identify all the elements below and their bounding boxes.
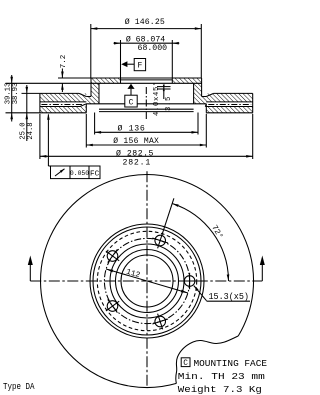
svg-text:15.3(x5): 15.3(x5) (209, 291, 250, 302)
center bore circle r26 (121, 255, 173, 307)
svg-text:Ø 136: Ø 136 (117, 123, 145, 133)
dim dia 156 extension lines (85, 114, 87, 148)
hatch: left friction ring bottom plate (40, 107, 86, 113)
datum C box in note (181, 358, 190, 367)
svg-text:0.050: 0.050 (70, 170, 89, 177)
dim 25.0/24.8 line and arrows (26, 93, 28, 141)
svg-text:MOUNTING FACE: MOUNTING FACE (194, 358, 268, 369)
mounting face extension line left (6, 82, 92, 84)
dim dia 156 MAX line and arrows (86, 144, 206, 146)
svg-text:Weight 7.3 Kg: Weight 7.3 Kg (178, 384, 262, 395)
dim dia 136 extension lines (94, 113, 96, 135)
dim dia 146.25 extension lines (90, 24, 92, 78)
hatch: right friction ring top plate (206, 93, 252, 102)
svg-text:7.2: 7.2 (60, 54, 68, 68)
hidden circle r49.7 (dashed) (97, 231, 196, 330)
section plane arrow left (29, 259, 31, 281)
dim dia 68 line and arrows (114, 42, 180, 44)
svg-text:38.93: 38.93 (12, 83, 20, 105)
hatch: left hat wall and neck (86, 83, 99, 104)
section plane arrow right (261, 259, 263, 281)
hub flange circle r37 (110, 244, 184, 318)
bolt hole 144 deg center marks (106, 251, 119, 261)
bolt hole 216 deg center marks (106, 301, 119, 311)
section center axis (dash-dot) (145, 87, 147, 120)
svg-text:24.8: 24.8 (27, 122, 35, 139)
svg-text:FC: FC (90, 170, 100, 178)
svg-text:F: F (137, 62, 142, 71)
front view vertical centerline (dash-dot) (146, 171, 148, 387)
dim dia 68 extension lines (120, 40, 122, 78)
bolt hole 72 deg center marks (158, 233, 163, 249)
runout symbol (55, 169, 65, 176)
svg-text:Ø 68.074: Ø 68.074 (126, 34, 165, 44)
svg-text:72°: 72° (209, 224, 224, 241)
dim dia 146.25 line and arrows (91, 28, 202, 30)
hatch: hat flange left block (91, 78, 121, 83)
dim dia 282.5 extension lines (39, 114, 41, 159)
svg-text:Ø 146.25: Ø 146.25 (125, 17, 165, 27)
disc outer circle (with break at text block) (41, 175, 254, 388)
hatch: right friction ring bottom plate (206, 107, 252, 113)
runout FCF box (51, 166, 101, 179)
dim 39.13/38.93 line and arrows (11, 83, 13, 113)
runout FCF leader arrow (47, 115, 49, 167)
svg-text:Min. TH 23 mm: Min. TH 23 mm (178, 371, 265, 382)
svg-text:Ø 156 MAX: Ø 156 MAX (113, 137, 159, 146)
dim dia 136 line and arrows (95, 131, 198, 133)
label 15.3(x5) leader arrow (194, 286, 207, 301)
svg-text:282.1: 282.1 (123, 158, 152, 167)
section outline: right ring (252, 93, 254, 112)
dim dia 282.5/282.1 line and arrows (40, 155, 253, 157)
background edges under hat (86, 103, 124, 105)
svg-text:112: 112 (125, 269, 141, 281)
bolt hole 288 deg center marks (158, 314, 163, 330)
72deg radial extension line (162, 198, 174, 235)
svg-text:C: C (183, 360, 188, 368)
datum F symbol and box (121, 61, 127, 67)
svg-text:Type DA: Type DA (3, 382, 35, 392)
svg-text:C: C (129, 98, 134, 107)
bolt hole at 288 deg (155, 316, 166, 327)
hat outer circle r54 (93, 227, 201, 335)
ring top extension line left (22, 92, 40, 94)
dim 7.2 extension line (58, 77, 91, 79)
hatch: hat flange right block (172, 78, 201, 83)
svg-text:Ø 282.5: Ø 282.5 (116, 148, 154, 158)
72deg dimension arc with arrows (172, 204, 228, 282)
bolt hole at 0 deg (184, 276, 195, 287)
dim 7.2 arrows and line (61, 69, 63, 79)
bolt hole 0 deg center marks (181, 280, 197, 282)
ring bottom extension line left (6, 112, 40, 114)
hatch: left friction ring top plate (40, 93, 86, 102)
break squiggle at text block (176, 336, 239, 384)
datum C triangle and box (127, 84, 134, 89)
vent slot centerline left (dash-dot) (41, 104, 84, 106)
friction inner circle r57 (90, 224, 204, 338)
svg-text:68.000: 68.000 (138, 44, 168, 53)
bolt hole at 216 deg (107, 301, 118, 312)
hub step circle r31.5 (116, 250, 179, 313)
vent slot centerline right (dash-dot) (208, 104, 251, 106)
section outline: left ring (39, 93, 41, 112)
bolt circle r42.6 (dash-dot) (104, 238, 189, 323)
front view horizontal centerline (dash-dot) (30, 280, 262, 282)
section outline: hat flange (91, 77, 202, 79)
bolt hole at 144 deg (107, 251, 118, 262)
dim dia 112 line and arrows (106, 269, 188, 293)
svg-text:4.0x45°: 4.0x45° (152, 81, 161, 116)
chamfer dim ticks (157, 86, 171, 88)
bolt hole at 72 deg (155, 235, 166, 246)
hatch: right hat wall and neck (194, 83, 207, 104)
svg-text:3.5: 3.5 (165, 96, 173, 111)
